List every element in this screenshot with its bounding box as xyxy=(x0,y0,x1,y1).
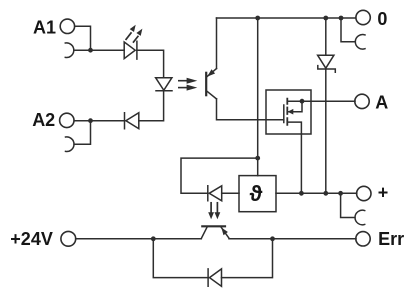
svg-text:A: A xyxy=(375,93,388,113)
node A1 junction xyxy=(88,48,93,53)
svg-text:ϑ: ϑ xyxy=(250,181,263,206)
thermal sensor box xyxy=(239,176,276,212)
wire D3 to A2 terminal xyxy=(74,120,124,122)
diode D6 xyxy=(208,269,221,286)
zener diode Z1 xyxy=(318,55,336,72)
terminal A2 xyxy=(60,113,74,127)
wire MOSFET source to plus rail xyxy=(300,134,302,193)
svg-text:A2: A2 xyxy=(32,110,55,130)
wire A2 socket to junction xyxy=(74,121,90,145)
svg-text:+24V: +24V xyxy=(10,229,53,249)
transistor T2 xyxy=(201,226,229,238)
node rail-zener xyxy=(323,16,328,21)
socket 0 xyxy=(355,35,365,50)
wire bottom loop left xyxy=(153,239,208,278)
node +24V branch xyxy=(151,236,156,241)
wire D1 to optocoupler LED xyxy=(137,50,164,77)
node source-plus xyxy=(299,191,304,196)
node thermal branch xyxy=(255,156,260,161)
node Err branch xyxy=(270,236,275,241)
wire D2 to A2 row xyxy=(139,91,164,121)
node socket-plus xyxy=(338,191,343,196)
svg-text:0: 0 xyxy=(377,9,387,29)
LED D5 emission arrows xyxy=(208,203,220,220)
wire A1 circle to junction xyxy=(75,26,91,50)
wire rail to thermal node (long vertical) xyxy=(257,18,259,176)
wire A1 socket row xyxy=(74,49,124,51)
terminal A1 xyxy=(60,19,74,33)
svg-text:A1: A1 xyxy=(33,17,56,37)
node zener-plus xyxy=(323,191,328,196)
socket A1 xyxy=(65,43,74,58)
optocoupler light arrows xyxy=(179,78,198,91)
terminal +24V xyxy=(61,231,76,246)
plus rail xyxy=(276,192,357,194)
phototransistor T1 xyxy=(206,69,216,99)
optocoupler LED D2 xyxy=(156,78,172,91)
terminal A xyxy=(355,94,369,108)
MOSFET Q1 xyxy=(284,99,302,134)
wire drain to terminal A xyxy=(302,100,355,102)
wire bottom loop right xyxy=(222,239,273,278)
LED D1 emission arrows xyxy=(126,25,142,42)
LED D5 (error indicator) xyxy=(208,186,222,201)
wire T1 collector to top rail xyxy=(216,18,218,69)
diode D3 xyxy=(125,113,139,129)
socket plus xyxy=(355,210,365,225)
wire +24V to transistor T2 xyxy=(76,238,202,240)
wire thermal node to LED D5 xyxy=(181,158,258,193)
terminal plus xyxy=(357,186,371,200)
wire rail to socket 0 xyxy=(341,18,355,42)
svg-text:Err: Err xyxy=(378,229,404,249)
svg-text:+: + xyxy=(378,182,389,202)
node A2 junction xyxy=(88,118,93,123)
MOSFET box U1 xyxy=(266,90,311,134)
node rail-socket drop xyxy=(339,16,344,21)
terminal 0 xyxy=(356,10,370,24)
terminal Err xyxy=(356,232,370,246)
wire T1 emitter to MOSFET gate xyxy=(217,99,284,120)
wire zener to plus rail xyxy=(325,69,327,193)
socket A2 xyxy=(66,137,75,152)
node rail-gate vertical xyxy=(255,16,260,21)
top rail (0 bus) xyxy=(217,17,356,19)
wire plus rail to socket xyxy=(341,193,355,217)
node MOSFET drain xyxy=(300,99,305,104)
wire D5 to thermal box xyxy=(222,192,239,194)
wire rail to zener xyxy=(325,18,327,55)
wire T2 emitter to Err terminal xyxy=(229,238,356,240)
LED D1 xyxy=(124,41,137,59)
